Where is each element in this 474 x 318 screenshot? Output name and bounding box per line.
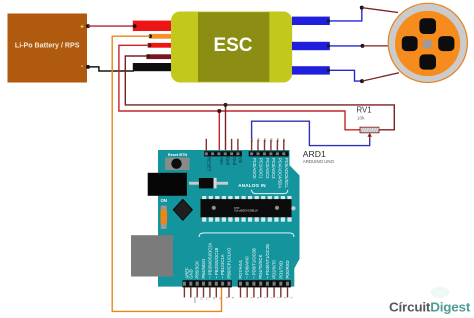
ESC lead red BEC — [148, 43, 172, 48]
ESC phase lead blue 3 — [292, 66, 330, 74]
svg-text:6: 6 — [249, 297, 253, 299]
power header labels — [207, 157, 244, 172]
diode D1 stripe — [214, 178, 217, 189]
svg-text:12: 12 — [206, 297, 210, 301]
svg-text:11: 11 — [212, 297, 216, 300]
svg-text:~ PD6/AIN0: ~ PD6/AIN0 — [245, 256, 250, 279]
power jack — [148, 173, 187, 196]
motor pad top — [419, 18, 436, 34]
svg-text:A1: A1 — [256, 138, 260, 142]
svg-text:Reset BTN: Reset BTN — [168, 153, 187, 157]
potentiometer wiper arrow — [368, 133, 372, 141]
battery minus terminal — [81, 63, 90, 70]
wire battery minus to ESC black lead — [88, 67, 134, 71]
IC pins bottom row — [202, 217, 292, 221]
svg-text:ATMEGA328P-PU: ATMEGA328P-PU — [234, 209, 258, 213]
wire battery plus to ESC red lead — [88, 25, 134, 27]
ESC phase lead blue 1 — [292, 17, 330, 25]
svg-text:4: 4 — [263, 297, 267, 299]
wire maroon phase 3 to motor — [362, 73, 399, 81]
IC U3 ATmega328 body — [201, 199, 292, 217]
svg-text:Li-Po Battery / RPS: Li-Po Battery / RPS — [15, 42, 80, 50]
motor hub — [422, 39, 432, 49]
digital header right pin stubs — [241, 287, 288, 297]
header digital bottom-right — [238, 280, 291, 287]
analog header pin stubs — [252, 140, 284, 152]
svg-text:ANALOG IN: ANALOG IN — [238, 183, 266, 188]
ESC lead orange signal — [149, 34, 172, 39]
motor pad left — [402, 36, 418, 51]
svg-text:10: 10 — [219, 297, 223, 301]
LED power — [161, 206, 168, 229]
wire blue phase 1 — [330, 8, 362, 21]
motor pad right — [438, 36, 454, 51]
header analog top-right — [249, 151, 289, 156]
diode D1 lead right — [217, 182, 229, 185]
svg-text:~ PD3/INT1/OC2B: ~ PD3/INT1/OC2B — [265, 244, 270, 279]
battery plus terminal — [80, 24, 90, 31]
svg-text:9: 9 — [225, 297, 229, 299]
svg-text:~ PB3/MOSI/OC2A: ~ PB3/MOSI/OC2A — [207, 242, 212, 278]
junction phase 2 — [361, 44, 365, 48]
svg-text:A5: A5 — [282, 138, 286, 142]
ESC lead black battery ground — [133, 63, 172, 71]
svg-text:2: 2 — [276, 297, 280, 299]
svg-text:RESET: RESET — [207, 157, 212, 172]
svg-text:A2: A2 — [263, 138, 267, 142]
svg-text:PC4/ADC4/SDA: PC4/ADC4/SDA — [278, 158, 283, 188]
junction phase 3 — [360, 79, 364, 83]
svg-text:GND: GND — [193, 297, 197, 303]
wire red 5V: ESC BEC to +5V pin and RV1 left — [119, 45, 360, 130]
IC label — [233, 206, 257, 213]
ESC phase lead blue 2 — [292, 42, 330, 50]
power header pin contacts — [205, 152, 240, 155]
svg-text:ON: ON — [161, 198, 167, 203]
svg-text:ARD1: ARD1 — [303, 149, 326, 159]
wire blue phase 3 — [330, 70, 362, 81]
svg-text:5: 5 — [256, 297, 260, 299]
svg-text:A3: A3 — [269, 138, 273, 142]
analog pins brace — [252, 190, 288, 194]
Arduino Uno board ARD1 — [158, 150, 300, 287]
ESC U2 body — [171, 12, 292, 83]
svg-text:8: 8 — [231, 297, 235, 299]
svg-text:+5V: +5V — [219, 157, 224, 165]
wire blue phase 2 — [330, 45, 363, 47]
wire red 5V drop to +5V pin — [218, 111, 220, 152]
potentiometer RV1 label — [357, 105, 372, 120]
power header pin stubs — [206, 139, 238, 152]
svg-text:PD7/AIN1: PD7/AIN1 — [238, 259, 243, 278]
CircuitDigest logo — [389, 300, 471, 315]
svg-text:PC5/ADC5/SCL: PC5/ADC5/SCL — [284, 158, 289, 188]
svg-text:PD1/TXD: PD1/TXD — [278, 261, 283, 279]
digital right header labels — [238, 244, 290, 279]
wire orange ESC signal to Arduino D9 — [112, 36, 221, 311]
svg-text:PB5/SCK: PB5/SCK — [195, 261, 200, 279]
mounting hole — [291, 206, 295, 210]
ESC lead maroon BEC ground — [146, 54, 171, 59]
junction on 5V wire — [217, 109, 221, 113]
svg-text:Gnd: Gnd — [226, 157, 231, 166]
wire blue wiper to A0 — [252, 121, 370, 145]
svg-text:13: 13 — [199, 297, 203, 301]
digital header left pin contacts — [183, 282, 231, 286]
label ARD1 — [303, 149, 335, 164]
junction on ground wire — [224, 103, 228, 107]
svg-text:PC1/ADC1: PC1/ADC1 — [258, 158, 263, 179]
svg-text:CírcuitDigest: CírcuitDigest — [389, 300, 471, 315]
svg-text:A0: A0 — [250, 138, 254, 142]
svg-text:PB0/ICP1/CLKO: PB0/ICP1/CLKO — [227, 247, 232, 279]
USB connector — [131, 235, 173, 276]
digital left stub net flags — [193, 297, 235, 303]
wire maroon ground: ESC to Gnd pin and RV1 right — [125, 56, 394, 130]
wire maroon phase 1 to motor — [362, 8, 398, 13]
svg-text:~ PB2/SS/OC1B: ~ PB2/SS/OC1B — [214, 248, 219, 279]
svg-text:GND: GND — [188, 269, 193, 278]
header power top-left — [204, 151, 242, 156]
svg-text:A4: A4 — [276, 138, 280, 142]
digital right stub net flags — [243, 297, 294, 299]
svg-text:PD0/RXD: PD0/RXD — [285, 260, 290, 278]
motor M1 BLDC outer ring — [388, 3, 467, 82]
svg-text:PD4/T0/XCK: PD4/T0/XCK — [258, 254, 263, 278]
digital left header labels — [188, 242, 231, 278]
svg-text:7: 7 — [243, 297, 247, 299]
analog header pin contacts — [250, 152, 285, 155]
digital pins brace — [199, 233, 294, 237]
svg-text:0: 0 — [290, 297, 294, 299]
svg-text:PD2/INT0: PD2/INT0 — [272, 260, 277, 279]
battery BT1 Li-Po — [8, 14, 88, 83]
svg-text:~ PD5/T1/OC0B: ~ PD5/T1/OC0B — [251, 248, 256, 279]
reset button — [165, 158, 190, 171]
junction phase 1 — [360, 6, 364, 10]
diode D1 lead left — [189, 182, 199, 185]
ESC lead red power — [133, 21, 172, 31]
analog header labels — [252, 158, 289, 188]
CircuitDigest watermark blob — [431, 287, 450, 298]
potentiometer RV1 body — [360, 127, 379, 133]
svg-text:PC3/ADC3: PC3/ADC3 — [271, 158, 276, 179]
diode D1 body — [199, 178, 214, 188]
svg-text:ARDUINO UNO: ARDUINO UNO — [303, 159, 335, 164]
digital header right pin contacts — [239, 282, 289, 286]
analog stub net flags A0-A5 — [250, 138, 286, 142]
svg-text:PB4/MISO: PB4/MISO — [201, 258, 206, 279]
svg-text:ESC: ESC — [213, 35, 252, 56]
svg-text:RV1: RV1 — [357, 105, 372, 114]
wire maroon phase 2 to motor — [363, 45, 389, 47]
svg-text:3: 3 — [270, 297, 274, 299]
svg-text:Gnd: Gnd — [232, 157, 237, 166]
IC pin 1 dot and pads — [212, 206, 279, 210]
svg-text:~ PB1/OC1A: ~ PB1/OC1A — [220, 254, 225, 278]
wire maroon drop to Gnd pin — [225, 105, 227, 152]
svg-text:PC2/ADC2: PC2/ADC2 — [265, 158, 270, 179]
svg-text:Vin: Vin — [238, 157, 243, 164]
digital header left pin stubs — [184, 287, 229, 297]
header digital bottom-left — [183, 280, 232, 287]
motor pad bottom — [419, 54, 436, 69]
crystal diamond — [173, 199, 192, 220]
IC pins top row — [202, 196, 292, 199]
svg-text:1: 1 — [283, 297, 287, 299]
svg-text:10k: 10k — [357, 116, 365, 121]
svg-text:PC0/ADC0: PC0/ADC0 — [252, 158, 257, 179]
svg-text:+: + — [80, 25, 84, 31]
